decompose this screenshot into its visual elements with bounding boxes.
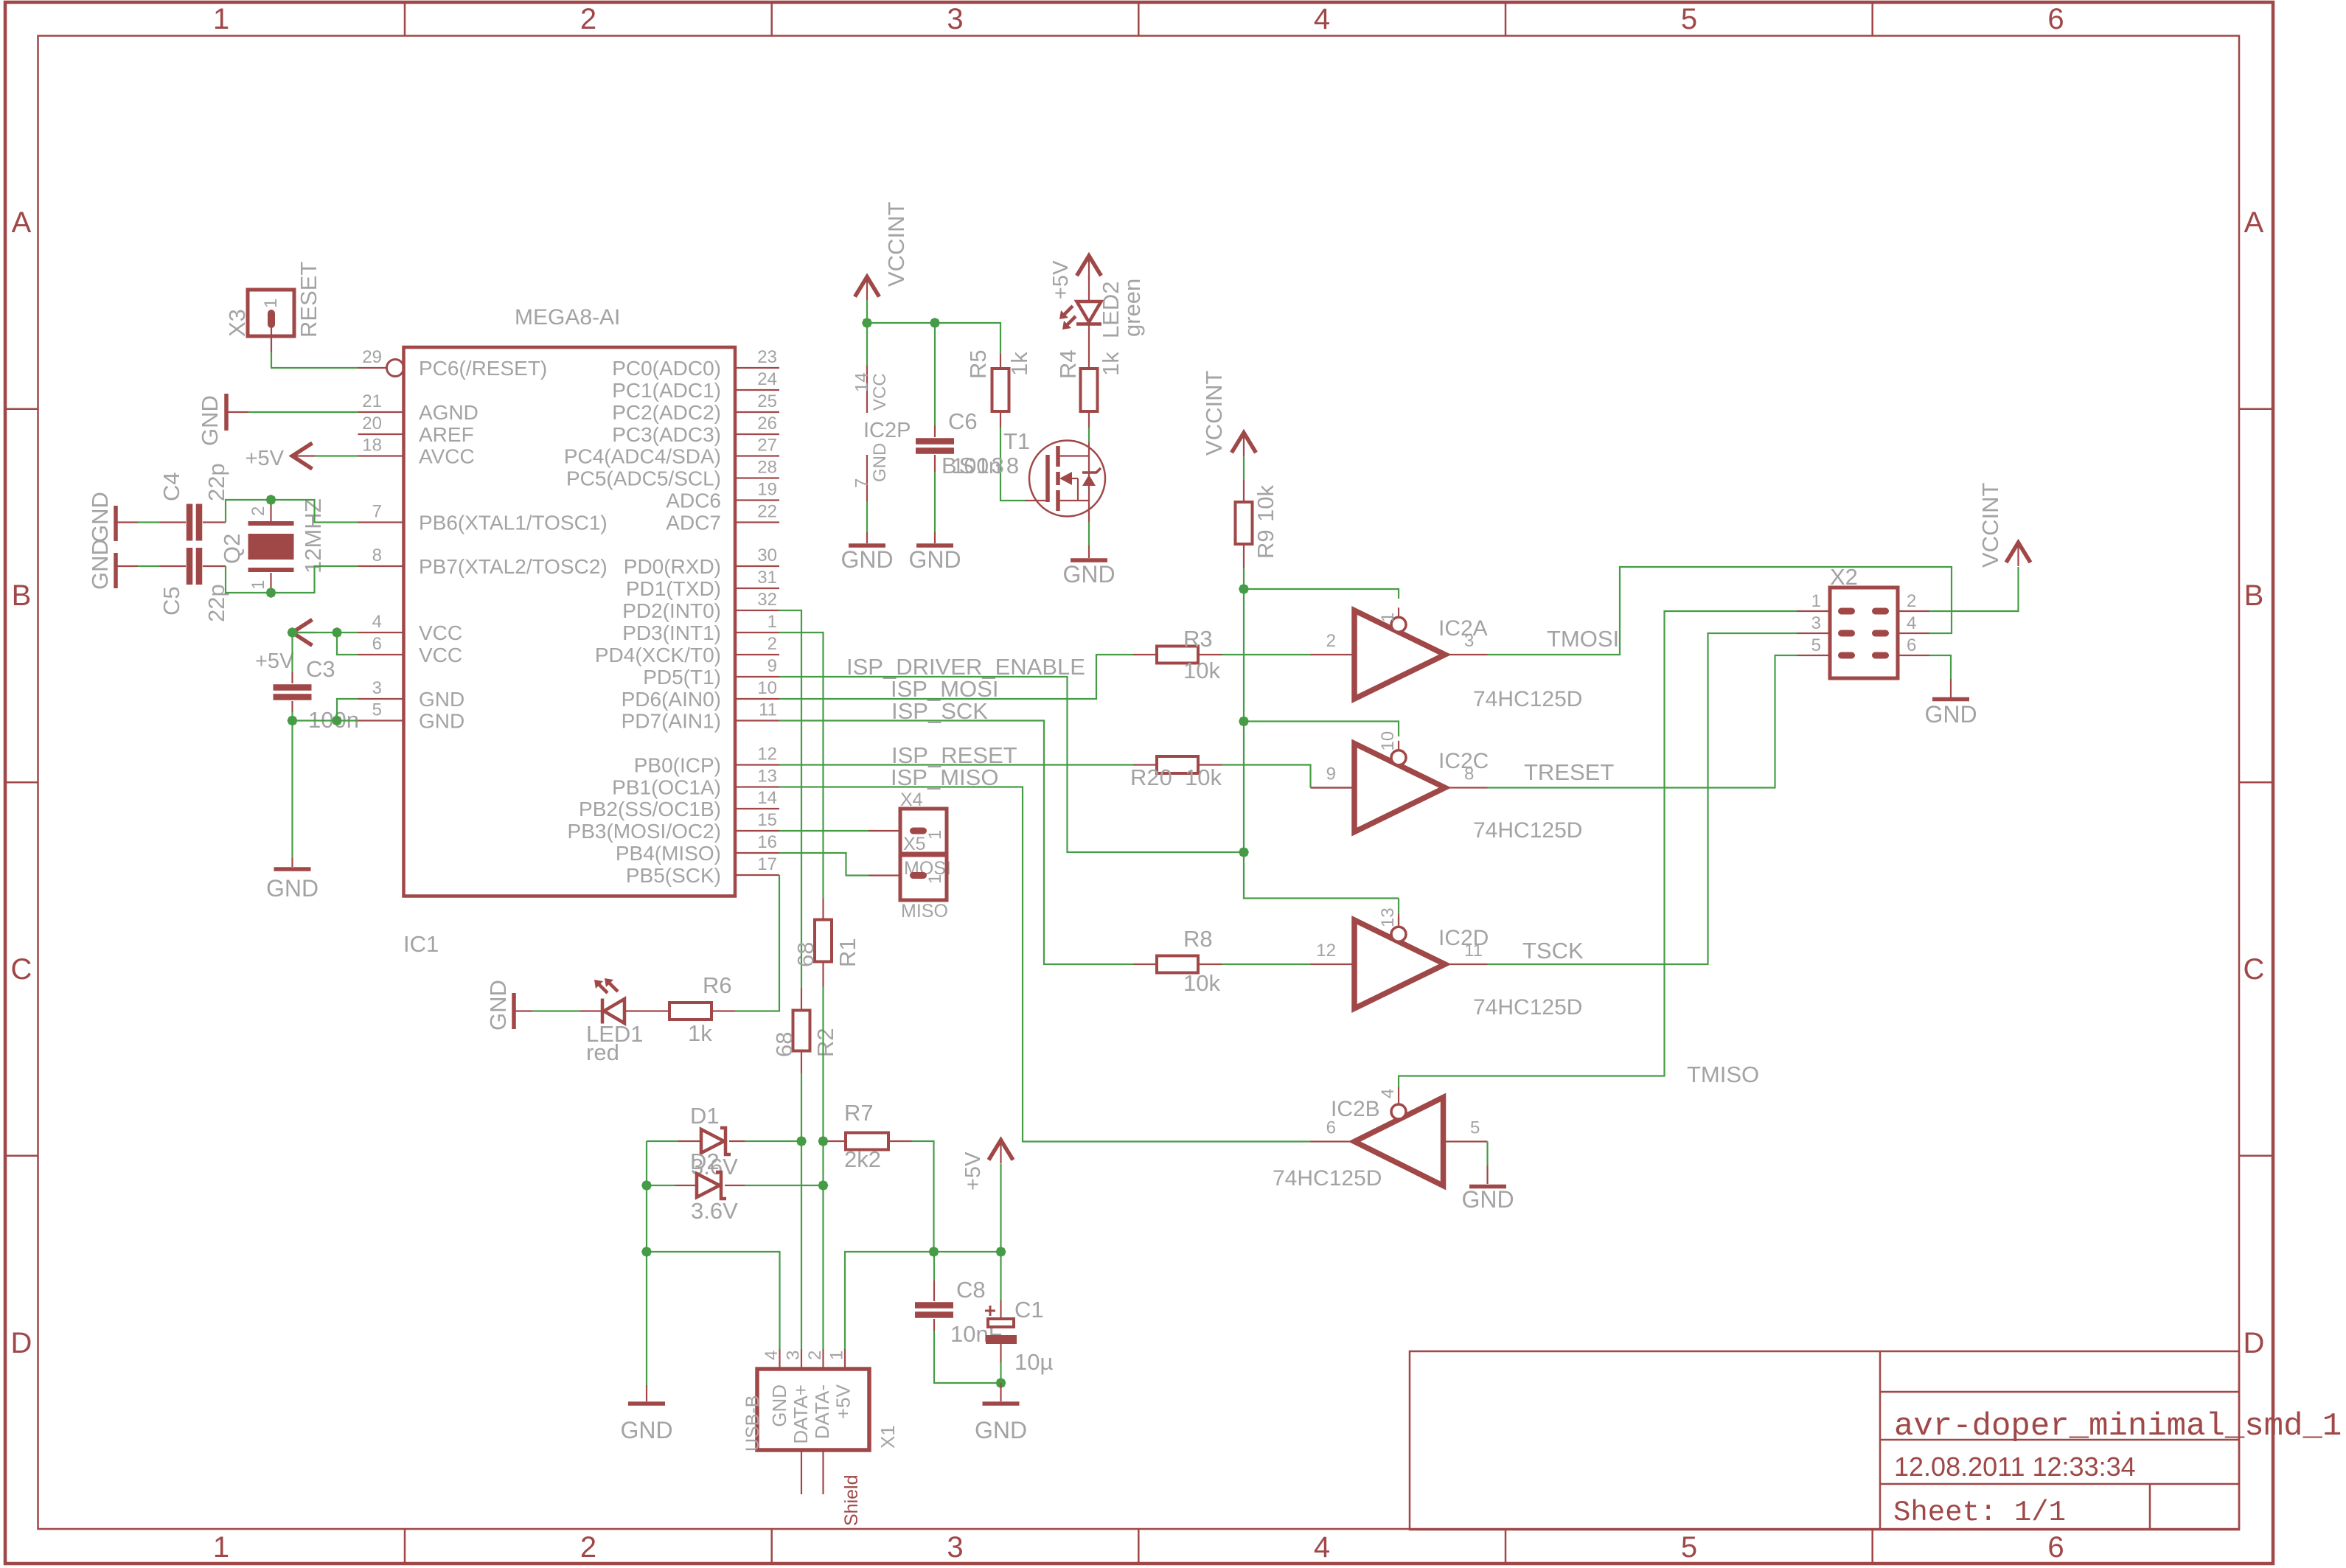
svg-text:DATA-: DATA- — [811, 1384, 833, 1439]
svg-text:GND: GND — [485, 980, 511, 1031]
wire C4 to XTAL1 — [226, 500, 358, 523]
svg-text:+5V: +5V — [1049, 260, 1073, 299]
svg-text:PB2(SS/OC1B): PB2(SS/OC1B) — [579, 798, 721, 820]
svg-text:ADC7: ADC7 — [666, 512, 721, 534]
svg-text:1: 1 — [827, 1351, 847, 1360]
node VCC junction 2 — [331, 627, 344, 639]
svg-text:3.6V: 3.6V — [691, 1198, 738, 1224]
svg-text:1: 1 — [213, 3, 229, 35]
svg-text:TMOSI: TMOSI — [1547, 626, 1619, 652]
led LED2 green — [1088, 276, 1090, 302]
node enable junction 3 — [1238, 846, 1250, 859]
svg-text:IC2A: IC2A — [1438, 616, 1488, 641]
IC1 pin 15 PB3(MOSI/OC2) — [735, 830, 779, 832]
ground GND at IC2P — [849, 543, 885, 548]
svg-text:PB1(OC1A): PB1(OC1A) — [612, 776, 721, 799]
svg-text:3: 3 — [784, 1351, 804, 1360]
wire IC2P GND — [866, 501, 868, 532]
ground GND at T1 — [1071, 558, 1107, 562]
svg-text:10k: 10k — [1183, 970, 1220, 996]
IC1 pin 29 PC6(/RESET) — [358, 367, 387, 369]
svg-text:14: 14 — [852, 372, 872, 392]
svg-text:22p: 22p — [203, 463, 229, 501]
frame column ticks top — [404, 2, 406, 36]
diode D2 zener 3.6V — [675, 1185, 697, 1186]
IC1 pin 18 AVCC — [358, 455, 404, 456]
wire +5V to pin18 — [315, 455, 358, 456]
wire +5V rail to USB pin1 — [845, 1252, 1001, 1349]
svg-text:PC3(ADC3): PC3(ADC3) — [612, 423, 721, 446]
svg-text:12: 12 — [1316, 941, 1336, 961]
IC1 pin 2 PD4(XCK/T0) — [735, 654, 779, 655]
wire C8 bottom to GND — [934, 1331, 1001, 1383]
wire VCCINT to pin14 and C6 and R5 — [866, 300, 868, 366]
wire X2 pin6 to GND — [1929, 655, 1951, 679]
node D2 DATA- junction — [817, 1180, 829, 1192]
svg-text:+5V: +5V — [961, 1151, 985, 1191]
svg-text:9: 9 — [1326, 764, 1336, 784]
svg-text:C6: C6 — [948, 408, 978, 434]
wire enable to IC2A pin1 — [1244, 589, 1399, 599]
svg-text:5: 5 — [1681, 3, 1697, 35]
svg-text:VCC: VCC — [870, 373, 890, 411]
svg-text:74HC125D: 74HC125D — [1473, 818, 1582, 843]
svg-text:PD6(AIN0): PD6(AIN0) — [622, 688, 721, 711]
crystal Q2 12MHZ — [248, 521, 294, 526]
svg-text:C3: C3 — [306, 656, 335, 682]
diode D1 zener 3.6V — [678, 1140, 701, 1142]
svg-text:2: 2 — [1907, 591, 1916, 611]
svg-text:GND: GND — [419, 688, 464, 711]
svg-text:11: 11 — [759, 700, 777, 720]
ground GND at C4 — [114, 506, 118, 541]
svg-text:PC6(/RESET): PC6(/RESET) — [419, 357, 547, 380]
svg-text:7: 7 — [372, 502, 382, 522]
ground GND bottom left — [646, 1385, 647, 1401]
svg-text:1: 1 — [1378, 613, 1398, 622]
svg-text:GND: GND — [620, 1417, 672, 1443]
buffer IC2D 74HC125D — [1354, 920, 1445, 1008]
power pin IC2P VCC pin 14 — [866, 366, 868, 413]
svg-text:R4: R4 — [1055, 349, 1081, 379]
svg-text:27: 27 — [757, 436, 777, 456]
svg-text:22: 22 — [757, 502, 777, 522]
wire ISP_DRIVER_ENABLE — [779, 677, 1244, 852]
svg-text:13: 13 — [757, 767, 777, 787]
svg-text:13: 13 — [1378, 907, 1398, 927]
title block sheet cell divider — [2149, 1484, 2151, 1530]
IC1 pin 22 ADC7 — [735, 521, 779, 523]
IC1 pin 19 ADC6 — [735, 499, 779, 501]
frame row ticks left — [5, 408, 38, 411]
svg-text:C1: C1 — [1014, 1297, 1044, 1323]
svg-text:GND: GND — [419, 710, 464, 733]
svg-text:2k2: 2k2 — [844, 1146, 881, 1172]
node GND rail junction — [641, 1246, 653, 1258]
resistor R9 10k — [1243, 456, 1245, 480]
svg-text:10: 10 — [757, 678, 777, 698]
svg-text:4: 4 — [762, 1351, 782, 1360]
svg-text:24: 24 — [757, 369, 777, 389]
svg-text:21: 21 — [362, 391, 382, 411]
svg-text:PD4(XCK/T0): PD4(XCK/T0) — [595, 644, 721, 666]
wire GND to LED1 — [532, 1010, 580, 1011]
wire enable to IC2D pin13 — [1398, 899, 1399, 915]
svg-text:3: 3 — [372, 678, 382, 698]
svg-text:R1: R1 — [835, 938, 860, 967]
svg-text:32: 32 — [757, 590, 777, 610]
capacitor C5 22p — [116, 565, 138, 567]
buffer IC2A 74HC125D — [1354, 610, 1445, 699]
svg-text:5: 5 — [1470, 1118, 1480, 1138]
svg-text:A: A — [2244, 206, 2264, 239]
svg-text:GND: GND — [768, 1384, 790, 1427]
svg-text:AGND: AGND — [419, 401, 478, 424]
svg-text:VCCINT: VCCINT — [1977, 483, 2003, 568]
svg-text:VCC: VCC — [419, 621, 462, 644]
svg-text:PB5(SCK): PB5(SCK) — [626, 864, 721, 887]
svg-text:+5V: +5V — [255, 649, 294, 673]
node C-GND junction — [995, 1377, 1007, 1390]
node +5V rail junction R7 — [927, 1246, 940, 1258]
wire DATA- net R1 to USB pin2 — [822, 987, 824, 1350]
IC1 pin 1 PD3(INT1) — [735, 632, 779, 633]
node crystal pin2 junction — [265, 494, 277, 506]
svg-text:USB-B: USB-B — [742, 1395, 763, 1452]
svg-text:PB3(MOSI/OC2): PB3(MOSI/OC2) — [568, 820, 721, 843]
svg-text:TMISO: TMISO — [1687, 1062, 1759, 1087]
node R7 DATA- junction — [817, 1135, 829, 1148]
IC1 pin 27 PC4(ADC4/SDA) — [735, 455, 779, 456]
node zener GND junction — [641, 1180, 653, 1192]
svg-text:68: 68 — [771, 1032, 797, 1057]
svg-text:1: 1 — [248, 580, 268, 590]
svg-text:1k: 1k — [1006, 352, 1032, 376]
svg-text:VCC: VCC — [419, 644, 462, 666]
capacitor C4 22p — [116, 521, 138, 523]
svg-text:5: 5 — [1681, 1531, 1697, 1564]
connector X2 — [1830, 588, 1898, 678]
IC1 pin 5 GND — [358, 719, 404, 721]
IC1 pin 16 PB4(MISO) — [735, 852, 779, 854]
svg-text:A: A — [12, 206, 32, 239]
capacitor C6 100n — [934, 323, 936, 425]
svg-text:30: 30 — [757, 546, 777, 565]
node crystal pin1 junction — [265, 587, 277, 599]
node enable junction 2 — [1238, 715, 1250, 728]
ground GND bottom right — [1000, 1383, 1001, 1401]
wire R3 to IC2A — [1222, 654, 1311, 655]
node VCCINT junction b — [929, 317, 941, 330]
wire ISP_MOSI — [779, 655, 1133, 699]
svg-text:3: 3 — [1811, 613, 1821, 633]
resistor R4 1k — [1088, 325, 1090, 367]
svg-text:C8: C8 — [956, 1277, 986, 1303]
IC1 pin 23 PC0(ADC0) — [735, 367, 779, 369]
wire DATA+ net R2 to USB pin3 — [801, 1073, 802, 1349]
svg-text:RESET: RESET — [296, 262, 321, 338]
resistor R6 1k — [624, 1010, 668, 1011]
svg-text:R7: R7 — [844, 1100, 874, 1126]
resistor R8 10k — [1133, 964, 1155, 965]
svg-text:+5V: +5V — [246, 447, 285, 470]
power +5V at LED2 — [1077, 256, 1101, 276]
ground GND at AGND — [224, 394, 229, 431]
svg-text:GND: GND — [87, 539, 113, 590]
svg-text:GND: GND — [87, 492, 113, 543]
svg-text:PD5(T1): PD5(T1) — [643, 666, 721, 689]
node GND junction 1 — [286, 714, 299, 727]
svg-text:D: D — [2244, 1327, 2265, 1359]
wire zener common to GND — [646, 1141, 647, 1385]
capacitor C1 10u polarized — [1000, 1252, 1001, 1300]
wire +5V VCC rows — [293, 632, 358, 633]
svg-text:MEGA8-AI: MEGA8-AI — [515, 305, 620, 330]
IC1 pin 10 PD6(AIN0) — [735, 698, 779, 700]
ground GND at X2 — [1932, 697, 1969, 702]
svg-text:1: 1 — [768, 612, 777, 632]
IC1 pin 17 PB5(SCK) — [735, 874, 779, 876]
svg-text:D: D — [11, 1327, 32, 1359]
svg-text:10k: 10k — [1185, 764, 1222, 790]
svg-text:GND: GND — [870, 443, 890, 482]
wire ISP_MISO — [779, 787, 1311, 1142]
IC1 pin 24 PC1(ADC1) — [735, 389, 779, 391]
svg-text:PD3(INT1): PD3(INT1) — [622, 621, 721, 644]
resistor R20 10k — [1133, 764, 1155, 765]
svg-text:5: 5 — [1811, 635, 1821, 655]
connector X5 MISO — [900, 855, 947, 900]
svg-text:8: 8 — [372, 546, 382, 565]
power VCCINT at X2 — [2006, 543, 2030, 562]
svg-text:R8: R8 — [1183, 926, 1213, 952]
wire T1 source to GND — [1088, 501, 1090, 522]
svg-text:25: 25 — [757, 391, 777, 411]
IC1 pin 4 VCC — [358, 632, 404, 633]
svg-text:PD7(AIN1): PD7(AIN1) — [622, 710, 721, 733]
svg-text:B: B — [2244, 579, 2264, 612]
svg-text:BS138: BS138 — [941, 453, 1021, 478]
wire R6 to pin17 — [735, 875, 779, 1011]
title block divider vertical — [1879, 1351, 1882, 1530]
svg-text:10k: 10k — [1253, 485, 1278, 522]
IC1 pin 14 PB2(SS/OC1B) — [735, 808, 779, 809]
wire pin15 to X4 — [779, 830, 869, 832]
svg-text:AVCC: AVCC — [419, 445, 475, 468]
IC1 pin 13 PB1(OC1A) — [735, 786, 779, 787]
connector X3 RESET — [248, 290, 294, 336]
svg-text:R5: R5 — [965, 349, 991, 379]
svg-text:1: 1 — [261, 299, 281, 308]
node +5V rail junction arrow — [995, 1246, 1007, 1258]
svg-text:74HC125D: 74HC125D — [1273, 1166, 1382, 1191]
IC1 pin 6 VCC — [358, 654, 404, 655]
svg-text:4: 4 — [1378, 1089, 1398, 1098]
svg-text:29: 29 — [362, 347, 382, 367]
wire X2 pin2 to VCCINT — [1929, 567, 2019, 611]
svg-text:PD2(INT0): PD2(INT0) — [622, 599, 721, 622]
svg-text:C4: C4 — [159, 472, 184, 501]
svg-text:red: red — [586, 1039, 619, 1065]
frame column ticks bottom — [404, 1530, 406, 1564]
node D1 DATA+ junction — [796, 1135, 808, 1148]
svg-text:5: 5 — [372, 700, 382, 720]
ground GND at C6 — [916, 543, 953, 548]
svg-text:10µ: 10µ — [1014, 1349, 1053, 1375]
wire R20 to IC2C — [1222, 765, 1311, 788]
wire R8 to IC2D — [1222, 964, 1311, 965]
svg-text:IC2P: IC2P — [863, 419, 911, 442]
resistor R7 2k2 — [824, 1140, 845, 1142]
svg-text:X5: X5 — [903, 834, 926, 854]
title block row lines — [1880, 1391, 2239, 1393]
svg-text:74HC125D: 74HC125D — [1473, 995, 1582, 1020]
IC1 pin 31 PD1(TXD) — [735, 588, 779, 589]
svg-text:6: 6 — [2047, 3, 2064, 35]
svg-text:GND: GND — [1461, 1186, 1514, 1213]
svg-text:C: C — [11, 953, 32, 986]
svg-text:TRESET: TRESET — [1524, 759, 1614, 785]
wire GND rail to USB pin4 — [647, 1252, 780, 1349]
wire TSCK IC2D to X2 pin3 — [1488, 633, 1797, 964]
svg-text:2: 2 — [248, 506, 268, 516]
svg-text:18: 18 — [362, 436, 382, 456]
IC1 pin 11 PD7(AIN1) — [735, 719, 779, 721]
svg-text:23: 23 — [757, 347, 777, 367]
svg-text:PC0(ADC0): PC0(ADC0) — [612, 357, 721, 380]
svg-text:1: 1 — [925, 874, 945, 884]
svg-text:12.08.2011 12:33:34: 12.08.2011 12:33:34 — [1894, 1452, 2136, 1482]
svg-text:4: 4 — [372, 612, 382, 632]
svg-text:4: 4 — [1314, 3, 1330, 35]
svg-text:2: 2 — [768, 634, 777, 654]
svg-text:X3: X3 — [224, 309, 250, 337]
svg-text:Q2: Q2 — [219, 534, 245, 564]
svg-text:GND: GND — [197, 395, 223, 446]
wire GND to C4 — [138, 521, 160, 523]
svg-text:IC2D: IC2D — [1438, 926, 1489, 950]
svg-text:PB7(XTAL2/TOSC2): PB7(XTAL2/TOSC2) — [419, 555, 608, 578]
wire TMISO IC2B pin4 to X2 pin1 — [1399, 611, 1797, 1087]
svg-text:IC2C: IC2C — [1438, 749, 1489, 773]
IC1 pin 9 PD5(T1) — [735, 676, 779, 677]
svg-text:GND: GND — [840, 546, 893, 573]
svg-text:MISO: MISO — [901, 901, 948, 921]
wire enable bus — [1244, 568, 1399, 899]
svg-text:R2: R2 — [812, 1028, 838, 1057]
wire D2 left to GND vertical — [647, 1185, 675, 1186]
capacitor C8 10nF — [933, 1252, 935, 1280]
svg-text:6: 6 — [1907, 635, 1916, 655]
wire pin16 to X5 — [779, 853, 869, 876]
svg-text:PD0(RXD): PD0(RXD) — [624, 555, 721, 578]
svg-text:68: 68 — [793, 942, 818, 967]
svg-text:C5: C5 — [159, 586, 184, 616]
svg-text:14: 14 — [757, 788, 777, 808]
buffer IC2B 74HC125D mirrored — [1354, 1098, 1444, 1186]
svg-text:PC2(ADC2): PC2(ADC2) — [612, 401, 721, 424]
ground GND at C5 — [114, 553, 118, 588]
IC1 pin 7 PB6(XTAL1/TOSC1) — [358, 521, 404, 523]
wire C5 to XTAL2 — [226, 566, 358, 593]
power +5V near C8 — [989, 1140, 1013, 1160]
IC1 pin 32 PD2(INT0) — [735, 610, 779, 611]
svg-text:1k: 1k — [688, 1020, 712, 1046]
svg-text:26: 26 — [757, 414, 777, 433]
svg-text:T1: T1 — [1003, 428, 1030, 454]
IC1 pin 20 AREF — [358, 433, 404, 435]
wire C3 to GND rows — [291, 712, 293, 858]
IC1 pin 8 PB7(XTAL2/TOSC2) — [358, 565, 404, 567]
svg-text:Sheet: 1/1: Sheet: 1/1 — [1893, 1496, 2066, 1529]
svg-text:C: C — [2244, 953, 2265, 986]
svg-text:4: 4 — [1314, 1531, 1330, 1564]
svg-text:16: 16 — [757, 832, 777, 852]
svg-text:R6: R6 — [703, 972, 732, 998]
X3 pin — [271, 327, 272, 352]
svg-text:GND: GND — [266, 875, 319, 902]
svg-text:31: 31 — [757, 568, 777, 588]
wire IC2B pin5 to GND — [1486, 1142, 1488, 1166]
svg-text:ISP_SCK: ISP_SCK — [891, 698, 988, 724]
svg-text:R9: R9 — [1253, 529, 1278, 559]
svg-text:PB6(XTAL1/TOSC1): PB6(XTAL1/TOSC1) — [419, 512, 608, 534]
wire +5V arrow down — [1000, 1164, 1001, 1252]
svg-text:X4: X4 — [900, 790, 923, 810]
svg-text:10k: 10k — [1183, 658, 1220, 683]
ic IC1 MEGA8-AI body — [404, 347, 736, 896]
svg-text:Shield: Shield — [841, 1475, 862, 1527]
svg-text:GND: GND — [975, 1417, 1027, 1443]
svg-text:+5V: +5V — [832, 1384, 854, 1419]
svg-text:GND: GND — [908, 546, 961, 573]
wire enable to IC2C pin10 — [1244, 722, 1399, 737]
wire D1 right to DATA+ — [745, 1140, 801, 1142]
power +5V at VCC — [293, 620, 313, 646]
resistor R1 68 — [822, 899, 824, 919]
svg-text:GND: GND — [1062, 561, 1115, 588]
svg-text:6: 6 — [372, 634, 382, 654]
svg-text:1k: 1k — [1098, 352, 1124, 376]
svg-text:PB4(MISO): PB4(MISO) — [616, 842, 721, 865]
svg-text:1: 1 — [925, 830, 945, 840]
ground GND at IC2B — [1469, 1185, 1506, 1189]
wire GND to C5 — [138, 565, 160, 567]
wire GND to pin21 — [248, 411, 358, 413]
svg-text:15: 15 — [757, 810, 777, 830]
svg-text:PD1(TXD): PD1(TXD) — [626, 577, 721, 600]
wire TRESET IC2C to X2 pin5 — [1488, 655, 1797, 788]
led LED1 red — [580, 1010, 602, 1011]
svg-text:1: 1 — [213, 1531, 229, 1564]
svg-text:D2: D2 — [690, 1149, 720, 1174]
svg-text:R3: R3 — [1183, 626, 1213, 652]
svg-text:ADC6: ADC6 — [666, 489, 721, 512]
svg-text:12: 12 — [757, 745, 777, 764]
svg-text:D1: D1 — [690, 1103, 720, 1129]
wire TMOSI IC2A to X2 pin4 — [1488, 567, 1952, 655]
wire ISP_RESET — [779, 764, 1133, 765]
ground GND at LED1 — [512, 993, 516, 1029]
svg-text:19: 19 — [757, 480, 777, 500]
power VCCINT arrow at IC2P — [855, 277, 880, 297]
svg-text:10: 10 — [1378, 731, 1398, 751]
svg-text:2: 2 — [805, 1351, 825, 1360]
node VCCINT junction a — [861, 317, 874, 330]
capacitor C3 100n — [291, 633, 293, 672]
svg-text:B: B — [12, 579, 32, 612]
resistor R5 1k — [1000, 354, 1001, 367]
